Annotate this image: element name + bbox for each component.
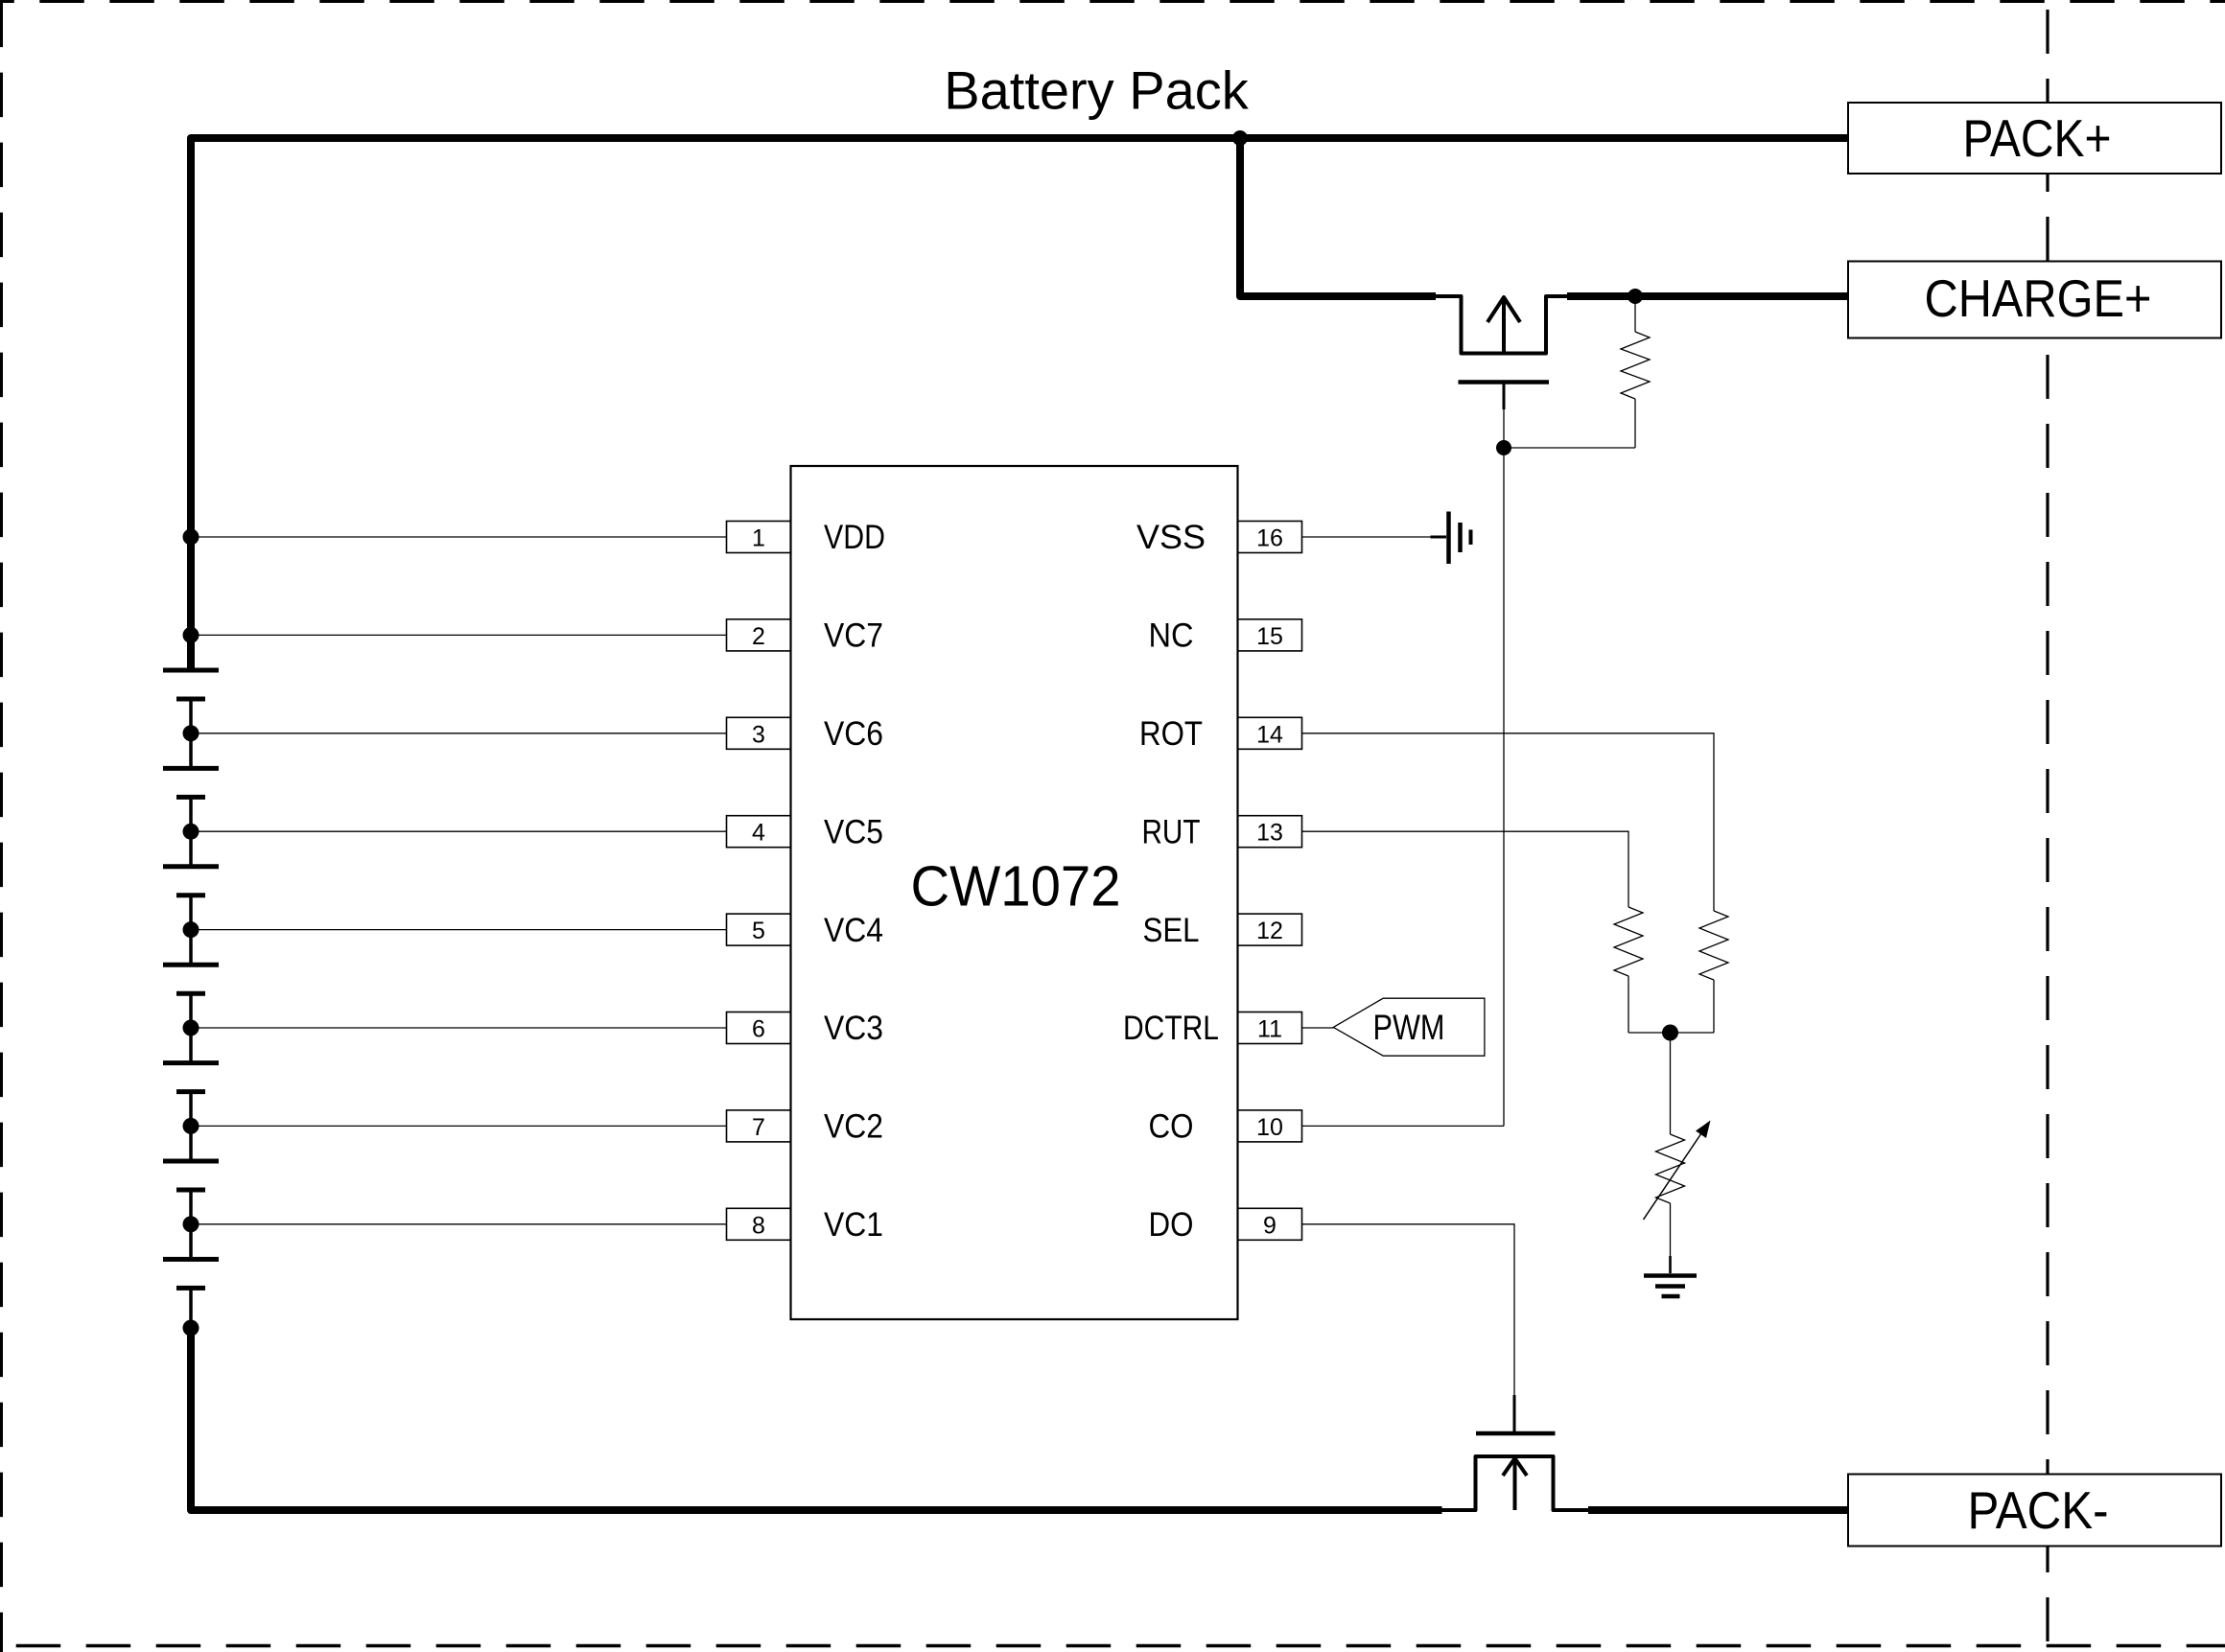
wire cell B7 minus to PACK- bus — [189, 1288, 193, 1328]
junction battery bottom — [183, 1320, 199, 1337]
junction battery tap 5 — [183, 921, 199, 938]
battery cell B7 — [163, 1259, 219, 1288]
svg-text:DCTRL: DCTRL — [1123, 1010, 1219, 1047]
wire cell B1 minus to cell B2 plus — [189, 699, 193, 768]
wire node to thermistor — [1670, 1033, 1672, 1134]
pin 8 (VC1) — [727, 1206, 884, 1244]
ground thermistor — [1644, 1256, 1697, 1296]
svg-text:VSS: VSS — [1136, 519, 1206, 556]
svg-text:11: 11 — [1257, 1016, 1282, 1043]
pin 11 (DCTRL) — [1123, 1010, 1302, 1047]
wire cell B6 minus to cell B7 plus — [189, 1190, 193, 1259]
junction battery tap 7 — [183, 1118, 199, 1134]
battery cell B2 — [163, 768, 219, 797]
wire VSS to ground — [1302, 536, 1431, 538]
svg-text:VDD: VDD — [824, 519, 885, 556]
terminal PACK+ — [1848, 103, 2221, 174]
svg-text:CHARGE+: CHARGE+ — [1925, 268, 2152, 328]
junction thermistor node — [1662, 1025, 1678, 1041]
pin 16 (VSS) — [1136, 519, 1302, 556]
wire RUT (pin 13) to R3 — [1302, 831, 1629, 907]
pin 5 (VC4) — [727, 912, 884, 949]
wire DO (pin 9) to Q2 gate — [1302, 1224, 1515, 1395]
transistor Q2 NMOS discharge switch — [1442, 1395, 1589, 1510]
pin 15 (NC) — [1149, 617, 1302, 655]
junction CHARGE+ / R1 — [1628, 289, 1643, 304]
svg-text:9: 9 — [1263, 1212, 1276, 1239]
svg-text:VC5: VC5 — [824, 813, 883, 850]
svg-text:8: 8 — [752, 1212, 765, 1239]
junction battery tap 3 — [183, 725, 199, 741]
pin 14 (ROT) — [1139, 715, 1302, 753]
wire cell B2 minus to cell B3 plus — [189, 797, 193, 866]
wire Q1 drain to CHARGE+ — [1567, 292, 1848, 300]
resistor R2 — [1699, 911, 1728, 1033]
wire battery tap to pin 6 (VC3) — [191, 1027, 727, 1029]
transistor Q1 PMOS charge switch — [1436, 296, 1567, 448]
battery cell B1 — [163, 670, 219, 699]
junction PACK+ bus / charge branch — [1232, 130, 1248, 146]
svg-text:6: 6 — [752, 1016, 765, 1043]
pin 6 (VC3) — [727, 1010, 884, 1047]
svg-text:16: 16 — [1256, 525, 1283, 552]
svg-text:PWM: PWM — [1373, 1008, 1445, 1047]
wire CO riser to Q1 gate — [1503, 448, 1505, 1126]
junction Q1 gate node — [1496, 440, 1511, 455]
svg-text:CO: CO — [1149, 1108, 1194, 1146]
wire battery tap to pin 8 (VC1) — [191, 1223, 727, 1225]
svg-text:14: 14 — [1256, 721, 1283, 748]
wire cell B3 minus to cell B4 plus — [189, 896, 193, 965]
wire CO (pin 10) to riser — [1302, 1125, 1505, 1127]
resistor R3 — [1614, 907, 1643, 1033]
wire Q1 gate node — [1504, 447, 1635, 449]
terminal PACK- — [1848, 1475, 2221, 1547]
battery cell B3 — [163, 867, 219, 896]
wire battery tap to pin 3 (VC6) — [191, 733, 727, 734]
battery cell B6 — [163, 1161, 219, 1190]
wire battery tap to pin 1 (VDD) — [191, 536, 727, 538]
svg-text:DO: DO — [1149, 1206, 1194, 1244]
pin 13 (RUT) — [1142, 813, 1302, 850]
junction battery tap 2 — [183, 627, 199, 643]
pin 7 (VC2) — [727, 1108, 884, 1146]
boundary dashed line — [2046, 10, 2049, 1645]
svg-text:PACK-: PACK- — [1968, 1480, 2109, 1540]
svg-text:VC7: VC7 — [824, 617, 883, 655]
IC U1 CW1072 — [791, 466, 1238, 1319]
terminal CHARGE+ — [1848, 262, 2221, 338]
battery cell B5 — [163, 1063, 219, 1092]
svg-text:RUT: RUT — [1142, 813, 1201, 850]
svg-text:ROT: ROT — [1139, 715, 1203, 753]
svg-text:Battery Pack: Battery Pack — [944, 60, 1249, 121]
junction battery tap 1 — [183, 529, 199, 546]
svg-text:CW1072: CW1072 — [911, 855, 1121, 919]
svg-text:3: 3 — [752, 721, 765, 748]
svg-text:VC4: VC4 — [824, 912, 883, 949]
wire CHARGE+ branch to Q1 source — [1240, 138, 1436, 296]
wire PACK+ bus (battery top to PACK+) — [191, 138, 1848, 670]
ground VSS (rotated) — [1431, 512, 1471, 565]
wire cell B4 minus to cell B5 plus — [189, 993, 193, 1062]
junction battery tap 8 — [183, 1216, 199, 1232]
pin 3 (VC6) — [727, 715, 884, 753]
svg-text:10: 10 — [1256, 1114, 1283, 1141]
svg-text:VC2: VC2 — [824, 1108, 883, 1146]
battery cell B4 — [163, 965, 219, 993]
pin 2 (VC7) — [727, 617, 884, 655]
wire Q2 drain to PACK- — [1588, 1506, 1848, 1514]
wire battery tap to pin 7 (VC2) — [191, 1125, 727, 1127]
wire battery tap to pin 2 (VC7) — [191, 634, 727, 636]
svg-text:VC3: VC3 — [824, 1010, 883, 1047]
svg-text:4: 4 — [752, 820, 765, 847]
svg-text:1: 1 — [752, 525, 765, 552]
pin 4 (VC5) — [727, 813, 884, 850]
pin 1 (VDD) — [727, 519, 886, 556]
pin 10 (CO) — [1149, 1108, 1302, 1146]
svg-text:PACK+: PACK+ — [1963, 108, 2112, 168]
wire ROT (pin 14) to R2 — [1302, 733, 1715, 911]
svg-text:2: 2 — [752, 623, 765, 650]
svg-text:13: 13 — [1256, 820, 1283, 847]
svg-text:SEL: SEL — [1143, 912, 1200, 949]
wire cell B5 minus to cell B6 plus — [189, 1092, 193, 1161]
junction battery tap 4 — [183, 824, 199, 840]
svg-text:NC: NC — [1149, 617, 1194, 655]
wire DCTRL (pin 11) to PWM — [1302, 1027, 1334, 1029]
pin 12 (SEL) — [1143, 912, 1302, 949]
thermistor RT1 — [1644, 1133, 1702, 1256]
svg-text:VC6: VC6 — [824, 715, 883, 753]
svg-text:12: 12 — [1256, 918, 1283, 944]
node PWM flag — [1333, 998, 1485, 1056]
wire battery tap to pin 4 (VC5) — [191, 830, 727, 832]
svg-text:VC1: VC1 — [824, 1206, 883, 1244]
wire PACK- bus (battery bottom to Q2 source) — [191, 1328, 1442, 1510]
wire divider node — [1628, 1032, 1714, 1034]
svg-text:7: 7 — [752, 1114, 765, 1141]
svg-text:15: 15 — [1256, 623, 1283, 650]
resistor R1 gate pull-up — [1621, 296, 1650, 448]
svg-text:5: 5 — [752, 918, 765, 944]
junction battery tap 6 — [183, 1020, 199, 1036]
pin 9 (DO) — [1149, 1206, 1302, 1244]
wire battery tap to pin 5 (VC4) — [191, 929, 727, 931]
